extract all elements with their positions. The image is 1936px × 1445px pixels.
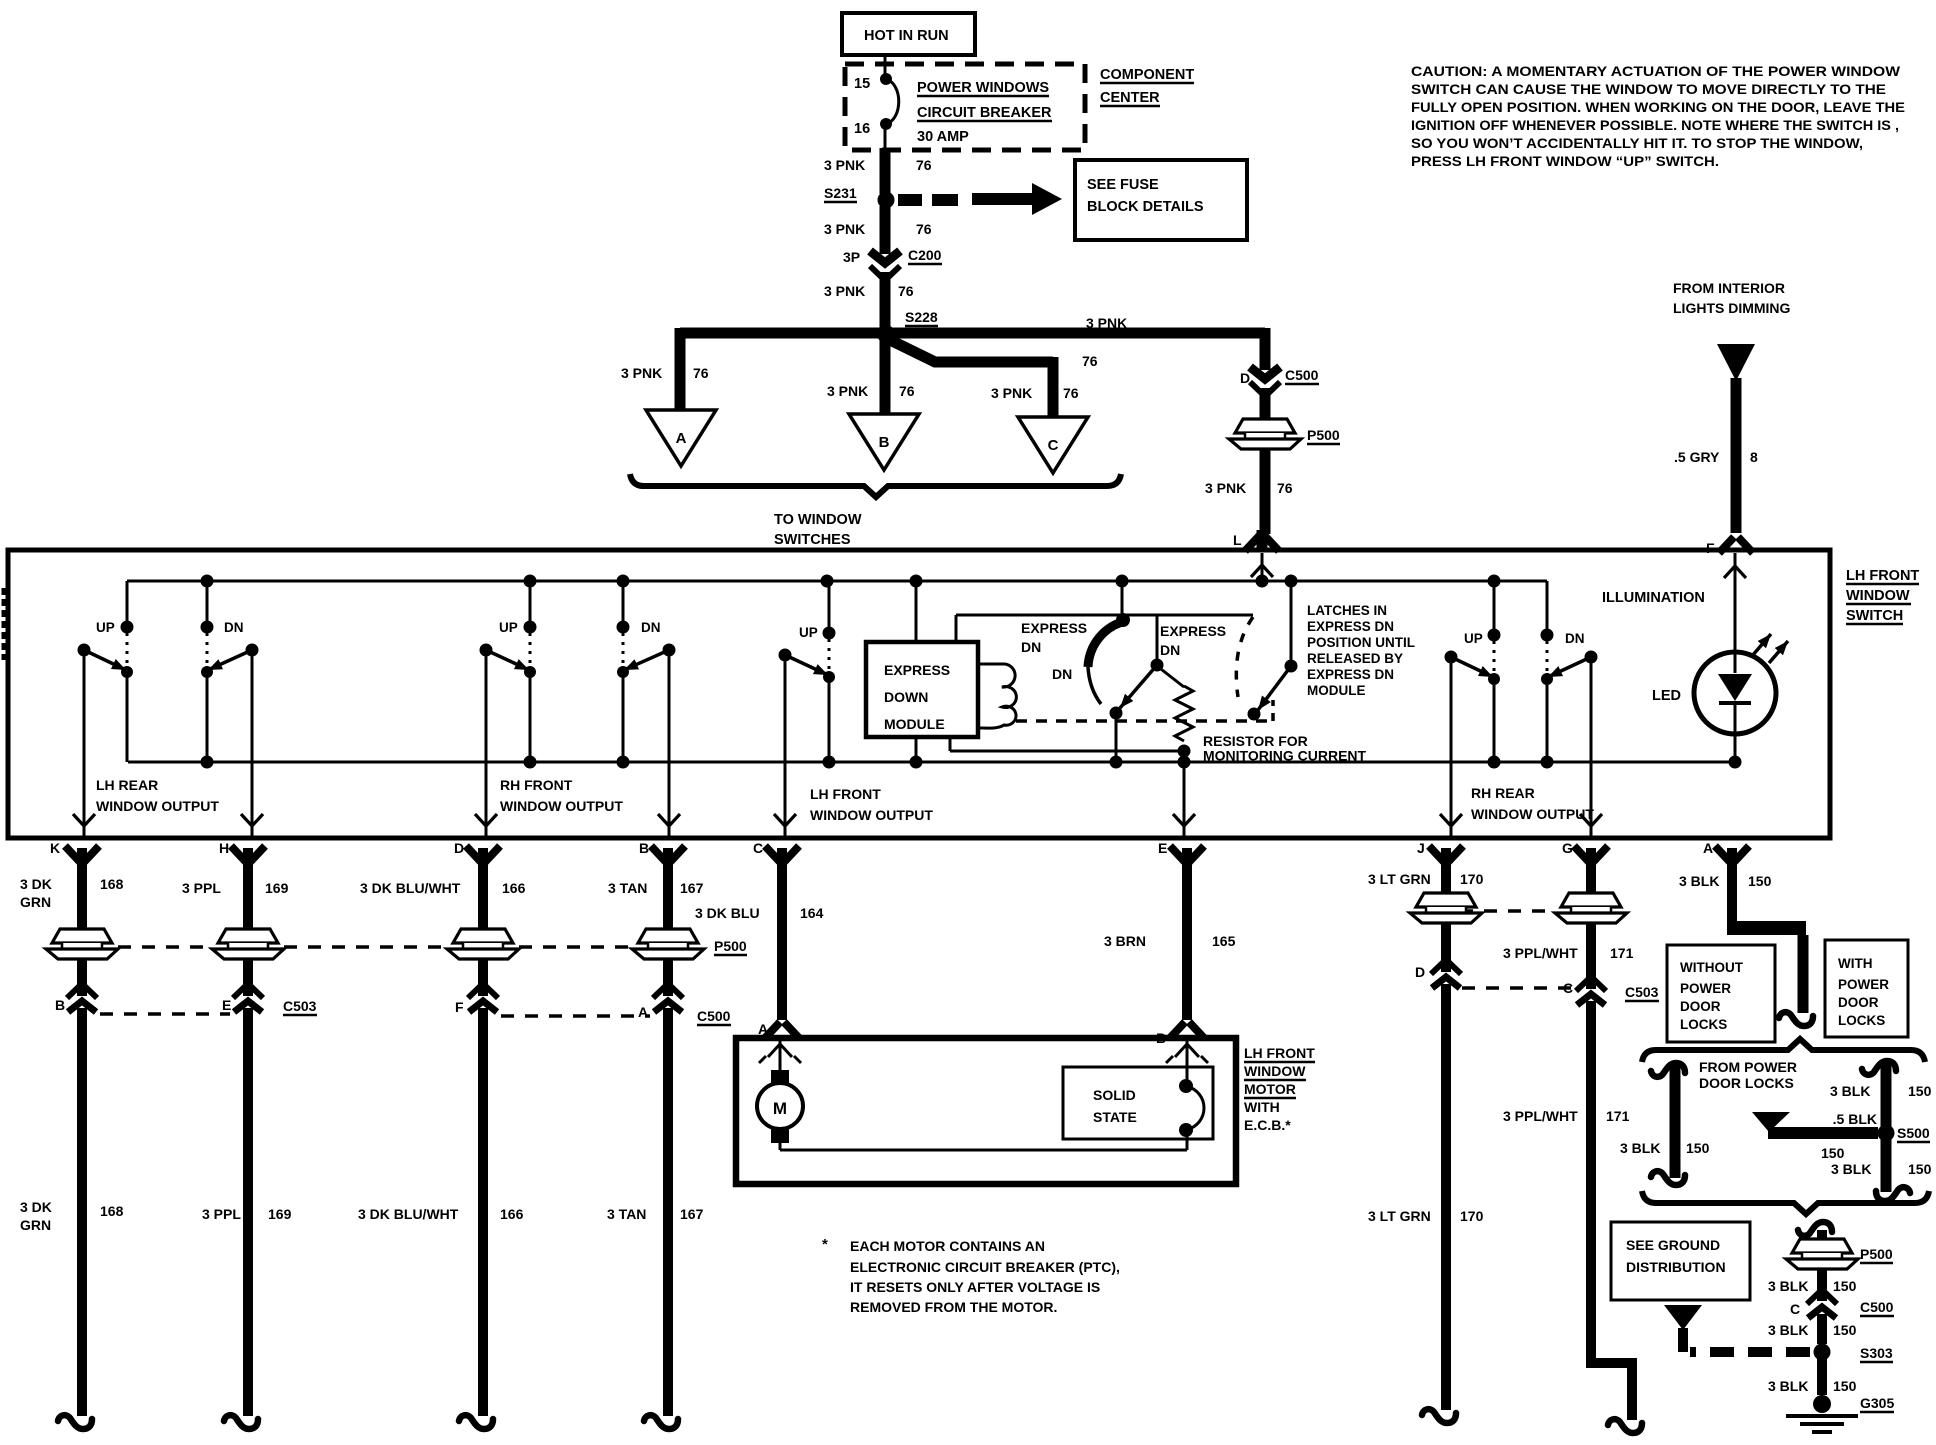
svg-text:3 PPL/WHT: 3 PPL/WHT bbox=[1503, 945, 1578, 961]
svg-text:MODULE: MODULE bbox=[1307, 683, 1366, 698]
svg-text:171: 171 bbox=[1606, 1108, 1630, 1124]
svg-text:E: E bbox=[222, 997, 231, 1013]
svg-text:150: 150 bbox=[1833, 1322, 1857, 1338]
svg-text:3 PNK: 3 PNK bbox=[991, 385, 1032, 401]
svg-text:D: D bbox=[454, 840, 464, 856]
svg-text:3 BLK: 3 BLK bbox=[1679, 873, 1719, 889]
svg-text:150: 150 bbox=[1833, 1378, 1857, 1394]
svg-text:76: 76 bbox=[898, 283, 914, 299]
svg-text:150: 150 bbox=[1908, 1161, 1932, 1177]
svg-text:LOCKS: LOCKS bbox=[1680, 1017, 1727, 1032]
svg-text:C: C bbox=[1048, 437, 1059, 454]
svg-text:SEE FUSE: SEE FUSE bbox=[1087, 177, 1159, 193]
svg-text:C500: C500 bbox=[1860, 1299, 1894, 1315]
svg-text:3 LT GRN: 3 LT GRN bbox=[1368, 1208, 1431, 1224]
svg-text:A: A bbox=[638, 1004, 648, 1020]
svg-text:3P: 3P bbox=[843, 249, 860, 265]
svg-text:C: C bbox=[753, 840, 763, 856]
svg-text:A: A bbox=[758, 1021, 768, 1037]
svg-text:UP: UP bbox=[96, 620, 115, 635]
svg-text:3 LT GRN: 3 LT GRN bbox=[1368, 871, 1431, 887]
svg-text:3 PNK: 3 PNK bbox=[827, 383, 868, 399]
svg-text:170: 170 bbox=[1460, 1208, 1484, 1224]
svg-text:EXPRESS: EXPRESS bbox=[1021, 620, 1087, 636]
svg-text:P500: P500 bbox=[714, 938, 747, 954]
svg-text:WINDOW OUTPUT: WINDOW OUTPUT bbox=[500, 798, 623, 814]
svg-text:E: E bbox=[1158, 840, 1167, 856]
svg-text:WITHOUT: WITHOUT bbox=[1680, 960, 1744, 975]
svg-text:SWITCHES: SWITCHES bbox=[774, 532, 851, 548]
svg-text:76: 76 bbox=[899, 383, 915, 399]
svg-text:FROM POWER: FROM POWER bbox=[1699, 1059, 1797, 1075]
svg-text:C503: C503 bbox=[283, 998, 317, 1014]
svg-text:C: C bbox=[1790, 1301, 1800, 1317]
svg-text:3 DK BLU/WHT: 3 DK BLU/WHT bbox=[360, 880, 461, 896]
svg-text:MOTOR: MOTOR bbox=[1244, 1081, 1296, 1097]
svg-text:EXPRESS: EXPRESS bbox=[884, 662, 950, 678]
svg-text:DN: DN bbox=[1565, 631, 1585, 646]
svg-text:K: K bbox=[50, 840, 60, 856]
svg-text:STATE: STATE bbox=[1093, 1109, 1137, 1125]
svg-text:P500: P500 bbox=[1860, 1246, 1893, 1262]
svg-text:WINDOW OUTPUT: WINDOW OUTPUT bbox=[96, 798, 219, 814]
svg-text:EXPRESS DN: EXPRESS DN bbox=[1307, 619, 1394, 634]
svg-text:DN: DN bbox=[224, 620, 244, 635]
svg-text:B: B bbox=[879, 434, 890, 451]
svg-text:168: 168 bbox=[100, 1203, 124, 1219]
svg-text:WITH: WITH bbox=[1244, 1099, 1280, 1115]
svg-text:169: 169 bbox=[265, 880, 289, 896]
svg-text:WINDOW OUTPUT: WINDOW OUTPUT bbox=[810, 807, 933, 823]
svg-text:REMOVED FROM THE MOTOR.: REMOVED FROM THE MOTOR. bbox=[850, 1299, 1057, 1315]
svg-text:WINDOW: WINDOW bbox=[1244, 1063, 1306, 1079]
svg-text:76: 76 bbox=[693, 365, 709, 381]
svg-text:3 PNK: 3 PNK bbox=[824, 221, 865, 237]
svg-text:167: 167 bbox=[680, 880, 704, 896]
svg-text:3 DK BLU/WHT: 3 DK BLU/WHT bbox=[358, 1206, 459, 1222]
svg-text:UP: UP bbox=[1464, 631, 1483, 646]
svg-text:E.C.B.*: E.C.B.* bbox=[1244, 1117, 1291, 1133]
svg-text:C500: C500 bbox=[697, 1008, 731, 1024]
svg-text:LH FRONT: LH FRONT bbox=[1846, 568, 1919, 584]
svg-text:*: * bbox=[822, 1236, 828, 1253]
svg-text:MONITORING CURRENT: MONITORING CURRENT bbox=[1203, 748, 1367, 764]
svg-text:RH REAR: RH REAR bbox=[1471, 785, 1535, 801]
svg-text:G: G bbox=[1562, 840, 1573, 856]
svg-text:3 BRN: 3 BRN bbox=[1104, 933, 1146, 949]
svg-text:HOT IN RUN: HOT IN RUN bbox=[864, 28, 949, 44]
svg-text:S303: S303 bbox=[1860, 1345, 1893, 1361]
svg-text:TO WINDOW: TO WINDOW bbox=[774, 512, 862, 528]
svg-text:EXPRESS DN: EXPRESS DN bbox=[1307, 667, 1394, 682]
svg-text:M: M bbox=[773, 1099, 787, 1118]
svg-text:170: 170 bbox=[1460, 871, 1484, 887]
svg-text:FULLY OPEN POSITION. WHEN WORK: FULLY OPEN POSITION. WHEN WORKING ON THE… bbox=[1411, 99, 1905, 115]
svg-text:PRESS LH FRONT WINDOW “UP” SWI: PRESS LH FRONT WINDOW “UP” SWITCH. bbox=[1411, 153, 1719, 169]
svg-text:RH FRONT: RH FRONT bbox=[500, 777, 573, 793]
svg-text:GRN: GRN bbox=[20, 894, 51, 910]
svg-text:P500: P500 bbox=[1307, 427, 1340, 443]
svg-text:H: H bbox=[219, 840, 229, 856]
svg-text:SOLID: SOLID bbox=[1093, 1087, 1136, 1103]
svg-text:.5 BLK: .5 BLK bbox=[1833, 1111, 1877, 1127]
svg-text:8: 8 bbox=[1750, 449, 1758, 465]
svg-text:150: 150 bbox=[1833, 1278, 1857, 1294]
svg-text:DISTRIBUTION: DISTRIBUTION bbox=[1626, 1259, 1726, 1275]
svg-text:3 BLK: 3 BLK bbox=[1768, 1278, 1808, 1294]
svg-text:DOOR: DOOR bbox=[1680, 999, 1721, 1014]
svg-text:LH FRONT: LH FRONT bbox=[1244, 1045, 1315, 1061]
svg-text:3 BLK: 3 BLK bbox=[1768, 1378, 1808, 1394]
svg-text:DN: DN bbox=[1052, 666, 1072, 682]
svg-text:DN: DN bbox=[641, 620, 661, 635]
svg-text:3 PNK: 3 PNK bbox=[824, 283, 865, 299]
svg-text:DOWN: DOWN bbox=[884, 689, 928, 705]
svg-text:3 PPL/WHT: 3 PPL/WHT bbox=[1503, 1108, 1578, 1124]
svg-text:COMPONENT: COMPONENT bbox=[1100, 67, 1194, 83]
svg-text:WITH: WITH bbox=[1838, 956, 1873, 971]
svg-text:CENTER: CENTER bbox=[1100, 90, 1160, 106]
svg-text:EXPRESS: EXPRESS bbox=[1160, 623, 1226, 639]
svg-text:A: A bbox=[1703, 840, 1713, 856]
svg-text:3 BLK: 3 BLK bbox=[1620, 1140, 1660, 1156]
svg-text:171: 171 bbox=[1610, 945, 1634, 961]
svg-text:FROM INTERIOR: FROM INTERIOR bbox=[1673, 280, 1785, 296]
svg-text:DOOR: DOOR bbox=[1838, 995, 1879, 1010]
svg-text:GRN: GRN bbox=[20, 1217, 51, 1233]
svg-text:76: 76 bbox=[916, 157, 932, 173]
svg-text:LIGHTS DIMMING: LIGHTS DIMMING bbox=[1673, 300, 1791, 316]
svg-text:150: 150 bbox=[1908, 1083, 1932, 1099]
svg-text:167: 167 bbox=[680, 1206, 704, 1222]
svg-text:150: 150 bbox=[1748, 873, 1772, 889]
svg-text:3 PNK: 3 PNK bbox=[824, 157, 865, 173]
svg-text:ELECTRONIC CIRCUIT BREAKER (PT: ELECTRONIC CIRCUIT BREAKER (PTC), bbox=[850, 1259, 1120, 1275]
svg-text:CAUTION: A MOMENTARY ACTUATION: CAUTION: A MOMENTARY ACTUATION OF THE PO… bbox=[1411, 63, 1901, 79]
svg-text:166: 166 bbox=[502, 880, 526, 896]
svg-text:IGNITION OFF WHENEVER POSSIBLE: IGNITION OFF WHENEVER POSSIBLE. NOTE WHE… bbox=[1411, 117, 1899, 133]
svg-text:LH REAR: LH REAR bbox=[96, 777, 158, 793]
svg-text:3 DK: 3 DK bbox=[20, 876, 52, 892]
svg-text:3 DK BLU: 3 DK BLU bbox=[695, 905, 760, 921]
svg-text:MODULE: MODULE bbox=[884, 716, 945, 732]
svg-text:SWITCH: SWITCH bbox=[1846, 608, 1903, 624]
svg-text:DOOR LOCKS: DOOR LOCKS bbox=[1699, 1075, 1794, 1091]
svg-text:J: J bbox=[1417, 840, 1425, 856]
svg-text:168: 168 bbox=[100, 876, 124, 892]
svg-text:3 PNK: 3 PNK bbox=[621, 365, 662, 381]
svg-text:3 PPL: 3 PPL bbox=[202, 1206, 241, 1222]
svg-text:DN: DN bbox=[1021, 639, 1041, 655]
svg-text:166: 166 bbox=[500, 1206, 524, 1222]
svg-text:C503: C503 bbox=[1625, 984, 1659, 1000]
svg-text:D: D bbox=[1415, 964, 1425, 980]
svg-text:3 PPL: 3 PPL bbox=[182, 880, 221, 896]
svg-text:WINDOW OUTPUT: WINDOW OUTPUT bbox=[1471, 806, 1594, 822]
svg-text:SWITCH CAN CAUSE THE WINDOW TO: SWITCH CAN CAUSE THE WINDOW TO MOVE DIRE… bbox=[1411, 81, 1886, 97]
svg-text:BLOCK DETAILS: BLOCK DETAILS bbox=[1087, 199, 1204, 215]
svg-text:POWER: POWER bbox=[1680, 981, 1731, 996]
svg-text:S500: S500 bbox=[1897, 1125, 1930, 1141]
svg-text:.5 GRY: .5 GRY bbox=[1674, 449, 1720, 465]
svg-text:30 AMP: 30 AMP bbox=[917, 129, 969, 145]
svg-text:76: 76 bbox=[1277, 480, 1293, 496]
svg-text:LED: LED bbox=[1652, 688, 1681, 704]
svg-text:3 TAN: 3 TAN bbox=[607, 1206, 646, 1222]
svg-text:16: 16 bbox=[854, 121, 870, 137]
svg-text:3 DK: 3 DK bbox=[20, 1199, 52, 1215]
svg-text:169: 169 bbox=[268, 1206, 292, 1222]
svg-text:ILLUMINATION: ILLUMINATION bbox=[1602, 590, 1705, 606]
svg-text:L: L bbox=[1233, 532, 1242, 548]
svg-text:DN: DN bbox=[1160, 642, 1180, 658]
svg-text:SEE GROUND: SEE GROUND bbox=[1626, 1237, 1720, 1253]
svg-text:S228: S228 bbox=[905, 309, 938, 325]
svg-text:CIRCUIT BREAKER: CIRCUIT BREAKER bbox=[917, 105, 1052, 121]
svg-text:76: 76 bbox=[1063, 385, 1079, 401]
svg-text:3 PNK: 3 PNK bbox=[1086, 315, 1127, 331]
svg-text:C500: C500 bbox=[1285, 367, 1319, 383]
svg-text:76: 76 bbox=[1082, 353, 1098, 369]
svg-text:POSITION UNTIL: POSITION UNTIL bbox=[1307, 635, 1415, 650]
svg-text:C200: C200 bbox=[908, 247, 942, 263]
svg-text:WINDOW: WINDOW bbox=[1846, 588, 1910, 604]
svg-text:B: B bbox=[55, 997, 65, 1013]
svg-text:POWER: POWER bbox=[1838, 977, 1889, 992]
svg-text:F: F bbox=[455, 999, 464, 1015]
svg-text:EACH MOTOR CONTAINS AN: EACH MOTOR CONTAINS AN bbox=[850, 1238, 1045, 1254]
svg-text:UP: UP bbox=[799, 625, 818, 640]
svg-text:SO YOU WON’T ACCIDENTALLY HI: SO YOU WON’T ACCIDENTALLY HIT IT. TO STO… bbox=[1411, 135, 1863, 151]
svg-text:G305: G305 bbox=[1860, 1395, 1894, 1411]
svg-text:3 TAN: 3 TAN bbox=[608, 880, 647, 896]
svg-text:LOCKS: LOCKS bbox=[1838, 1013, 1885, 1028]
svg-text:3 BLK: 3 BLK bbox=[1768, 1322, 1808, 1338]
svg-text:LH FRONT: LH FRONT bbox=[810, 786, 881, 802]
svg-text:UP: UP bbox=[499, 620, 518, 635]
svg-text:164: 164 bbox=[800, 905, 824, 921]
svg-text:165: 165 bbox=[1212, 933, 1236, 949]
svg-text:3 BLK: 3 BLK bbox=[1830, 1083, 1870, 1099]
svg-text:B: B bbox=[639, 840, 649, 856]
svg-text:LATCHES IN: LATCHES IN bbox=[1307, 603, 1387, 618]
svg-text:3 BLK: 3 BLK bbox=[1831, 1161, 1871, 1177]
svg-text:S231: S231 bbox=[824, 185, 857, 201]
svg-text:150: 150 bbox=[1821, 1145, 1845, 1161]
svg-text:POWER WINDOWS: POWER WINDOWS bbox=[917, 80, 1049, 96]
svg-text:76: 76 bbox=[916, 221, 932, 237]
svg-text:IT RESETS ONLY AFTER VOLTAGE I: IT RESETS ONLY AFTER VOLTAGE IS bbox=[850, 1279, 1100, 1295]
svg-text:150: 150 bbox=[1686, 1140, 1710, 1156]
svg-text:15: 15 bbox=[854, 76, 870, 92]
svg-text:RELEASED BY: RELEASED BY bbox=[1307, 651, 1403, 666]
svg-text:A: A bbox=[676, 430, 687, 447]
svg-text:3 PNK: 3 PNK bbox=[1205, 480, 1246, 496]
